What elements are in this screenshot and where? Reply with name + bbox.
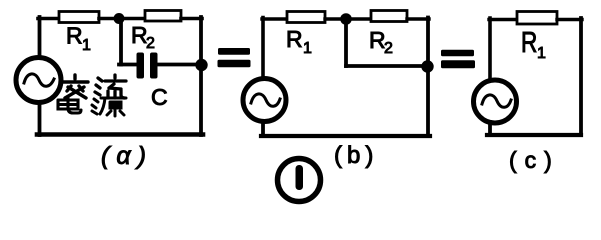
wire b top-right [407,17,429,20]
svg-text:(b): (b) [334,142,378,169]
AC source (circuit c) [474,80,517,123]
wire a right vertical [199,17,203,135]
wire a bottom horizontal [37,132,203,137]
resistor R2 (circuit a) [145,11,181,22]
resistor R1 (circuit a) [59,12,99,23]
resistor R1 (circuit c) [517,12,557,25]
svg-text:2: 2 [384,40,393,57]
wire c left vertical [488,18,492,80]
svg-text:C: C [151,84,168,110]
marker circled 1 [278,159,321,202]
wire b below source [261,121,265,136]
svg-text:(c): (c) [509,147,560,173]
label 电 (dian of 电源 power) [58,97,81,113]
svg-text:R: R [521,25,537,58]
svg-text:1: 1 [537,45,546,62]
label 源 (yuan of 电源 power) [92,98,126,116]
wire c top-right [557,18,582,21]
wire b bypass vertical [344,19,348,66]
wire a top-left horizontal [38,17,60,21]
wire b bottom horizontal [261,134,430,138]
node right junction (circuit b) [421,60,433,72]
wire b left vertical [261,18,265,80]
wire a capacitor to right node [157,63,200,67]
wire c bottom horizontal [487,133,581,137]
equivalence sign 2 [441,50,475,68]
wire b right vertical [426,18,430,137]
node junction between R1 and R2 (circuit a) [114,13,125,24]
wire a left vertical [38,17,42,58]
wire b top-left [262,17,288,20]
resistor R1 (circuit b) [287,12,325,23]
wire c right vertical [579,18,583,135]
node right junction (circuit a) [195,59,207,71]
capacitor C (circuit a) [137,53,158,79]
svg-text:R: R [286,26,303,52]
label 交 (jiao of 交流 AC) [62,75,88,98]
equivalence sign 1 [218,48,251,67]
wire c top [489,18,518,21]
svg-text:1: 1 [303,40,312,57]
svg-text:(α): (α) [101,142,153,170]
AC source (circuit a) [16,58,61,103]
svg-text:R: R [66,23,83,49]
wire b bypass horizontal [346,64,427,68]
wire a branch vertical from junction [119,18,123,65]
wire a branch horizontal to capacitor [119,63,138,67]
resistor R2 (circuit b) [371,11,407,22]
svg-text:2: 2 [146,35,155,52]
wire c below source [488,122,492,135]
wire a below source [38,102,42,135]
svg-text:1: 1 [82,37,91,54]
wire a top-middle [99,17,146,21]
AC source (circuit b) [243,79,286,122]
label 流 (liu of 交流 AC) [95,75,126,98]
node junction between R1 and R2 (circuit b) [340,13,352,25]
wire b top-middle [325,17,372,20]
wire a top-right [181,17,202,21]
